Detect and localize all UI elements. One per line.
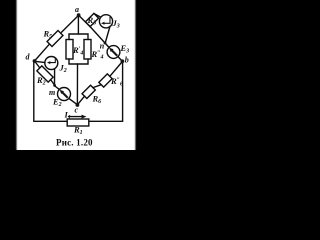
bottom rail left segment [34,120,67,122]
node c [76,103,80,107]
svg-text:a: a [75,5,79,14]
resistor R6'' [99,74,112,87]
svg-text:R5: R5 [43,29,53,41]
wire J2 to m [54,69,56,85]
svg-text:I1: I1 [64,110,71,122]
wire R6'' to b [110,62,123,77]
vertical wire b down to bottom rail [122,62,124,122]
svg-text:R2: R2 [36,75,46,87]
wire R3 to node n [90,27,105,44]
svg-text:J2: J2 [59,63,67,75]
arrow inside J3 [104,17,111,23]
svg-text:E3: E3 [120,43,130,55]
wire a to R3 [79,15,90,26]
node b [121,59,125,63]
wire n to E3 [105,43,109,48]
EMF E2 circle [58,88,71,101]
resistor R3 [85,13,98,26]
current arrow I1 [69,116,84,118]
svg-text:R″6: R″6 [110,76,123,88]
wire a down to top bar [77,15,79,34]
EMF E3 circle [107,46,120,59]
node a [77,13,81,17]
svg-text:R′4: R′4 [72,45,83,57]
wire a to R5 [62,15,79,32]
bottom rail right segment [89,120,123,122]
svg-text:J3: J3 [112,18,120,30]
node d [33,59,37,63]
wire bottom bar to node c [76,64,78,105]
wire m to E2 [55,86,60,90]
resistor R4' [66,40,73,60]
svg-text:n: n [100,42,105,51]
resistor R6 [82,85,95,98]
svg-text:c: c [75,106,79,115]
svg-text:d: d [26,53,31,62]
resistor R1 [67,119,89,126]
stub R3 top corner to J3 circle [94,14,101,18]
arrow inside E3 [111,50,117,56]
wire c to R6 [77,96,84,105]
wire J3 to node n [105,26,110,43]
current source J2 circle [45,57,58,70]
wire R5 to d [35,45,49,61]
resistor R2 [37,66,53,82]
wire E2 to c [69,98,77,104]
arrow inside E2 [62,92,68,98]
svg-text:E2: E2 [52,96,62,108]
svg-text:R3: R3 [87,15,97,27]
stub d to J2 circle [35,61,45,62]
svg-text:Рис. 1.20: Рис. 1.20 [56,138,93,148]
arrow inside J2 [49,58,55,62]
arrowhead I1 [82,115,87,119]
bottom bar of parallel R4 branch [69,59,88,64]
wire R6 to R6'' [93,85,101,88]
wire E3 to b [118,57,122,62]
current source J3 circle [99,15,112,28]
node m [53,84,56,87]
svg-text:b: b [125,56,129,65]
node n [104,42,107,45]
svg-text:R6: R6 [92,94,102,106]
resistor R5 [47,31,63,47]
svg-text:R″4: R″4 [91,49,104,61]
vertical wire d down to bottom rail [33,62,35,122]
wire R2 to m [51,80,55,85]
top bar of parallel R4 branch [69,34,88,40]
resistor R4'' [84,40,91,60]
wire d to R2 [35,61,40,68]
